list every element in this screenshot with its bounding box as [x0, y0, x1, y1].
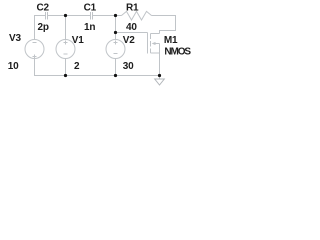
svg-text:M1: M1	[164, 35, 178, 46]
svg-text:30: 30	[123, 61, 134, 72]
capacitor C1	[91, 12, 93, 20]
resistor R1	[122, 11, 152, 20]
node A junction dot	[64, 14, 67, 17]
wire R1 to drain corner	[152, 16, 176, 34]
capacitor C2	[46, 12, 48, 20]
wire node B to R1	[116, 15, 122, 17]
svg-text:V2: V2	[123, 35, 135, 46]
svg-text:1n: 1n	[84, 22, 95, 33]
wire node B down to node C	[115, 16, 117, 33]
voltage source V1	[56, 40, 75, 59]
wire bottom rail	[35, 59, 160, 76]
node B junction dot	[114, 14, 117, 17]
ground	[155, 76, 165, 86]
node C junction dot	[114, 31, 117, 34]
svg-text:C2: C2	[37, 2, 50, 13]
junction dot source/ground	[158, 74, 161, 77]
wire top rail left: V3 top to C2	[35, 16, 46, 40]
svg-text:2: 2	[74, 61, 80, 72]
wire node C to gate	[116, 32, 148, 34]
wire V2 bottom	[115, 59, 117, 76]
wire V1 bottom	[65, 59, 67, 76]
voltage source V2	[106, 40, 125, 59]
svg-text:V1: V1	[72, 35, 84, 46]
svg-text:R1: R1	[126, 2, 139, 13]
voltage source V3	[25, 40, 44, 59]
wire node A down to V1	[65, 16, 67, 40]
wire source down	[159, 53, 161, 76]
svg-text:V3: V3	[9, 33, 21, 44]
svg-text:40: 40	[126, 22, 137, 33]
svg-text:10: 10	[8, 61, 19, 72]
wire node C down to V2	[115, 33, 117, 40]
wire C1 to node B	[93, 15, 116, 17]
svg-text:C1: C1	[84, 2, 97, 13]
wire C2 to node A	[48, 15, 66, 17]
transistor M1	[148, 33, 160, 54]
junction dot V2 bottom	[114, 74, 117, 77]
svg-text:NMOS: NMOS	[164, 46, 191, 57]
wire node A to C1	[66, 15, 91, 17]
junction dot V1 bottom	[64, 74, 67, 77]
svg-text:2p: 2p	[38, 22, 49, 33]
